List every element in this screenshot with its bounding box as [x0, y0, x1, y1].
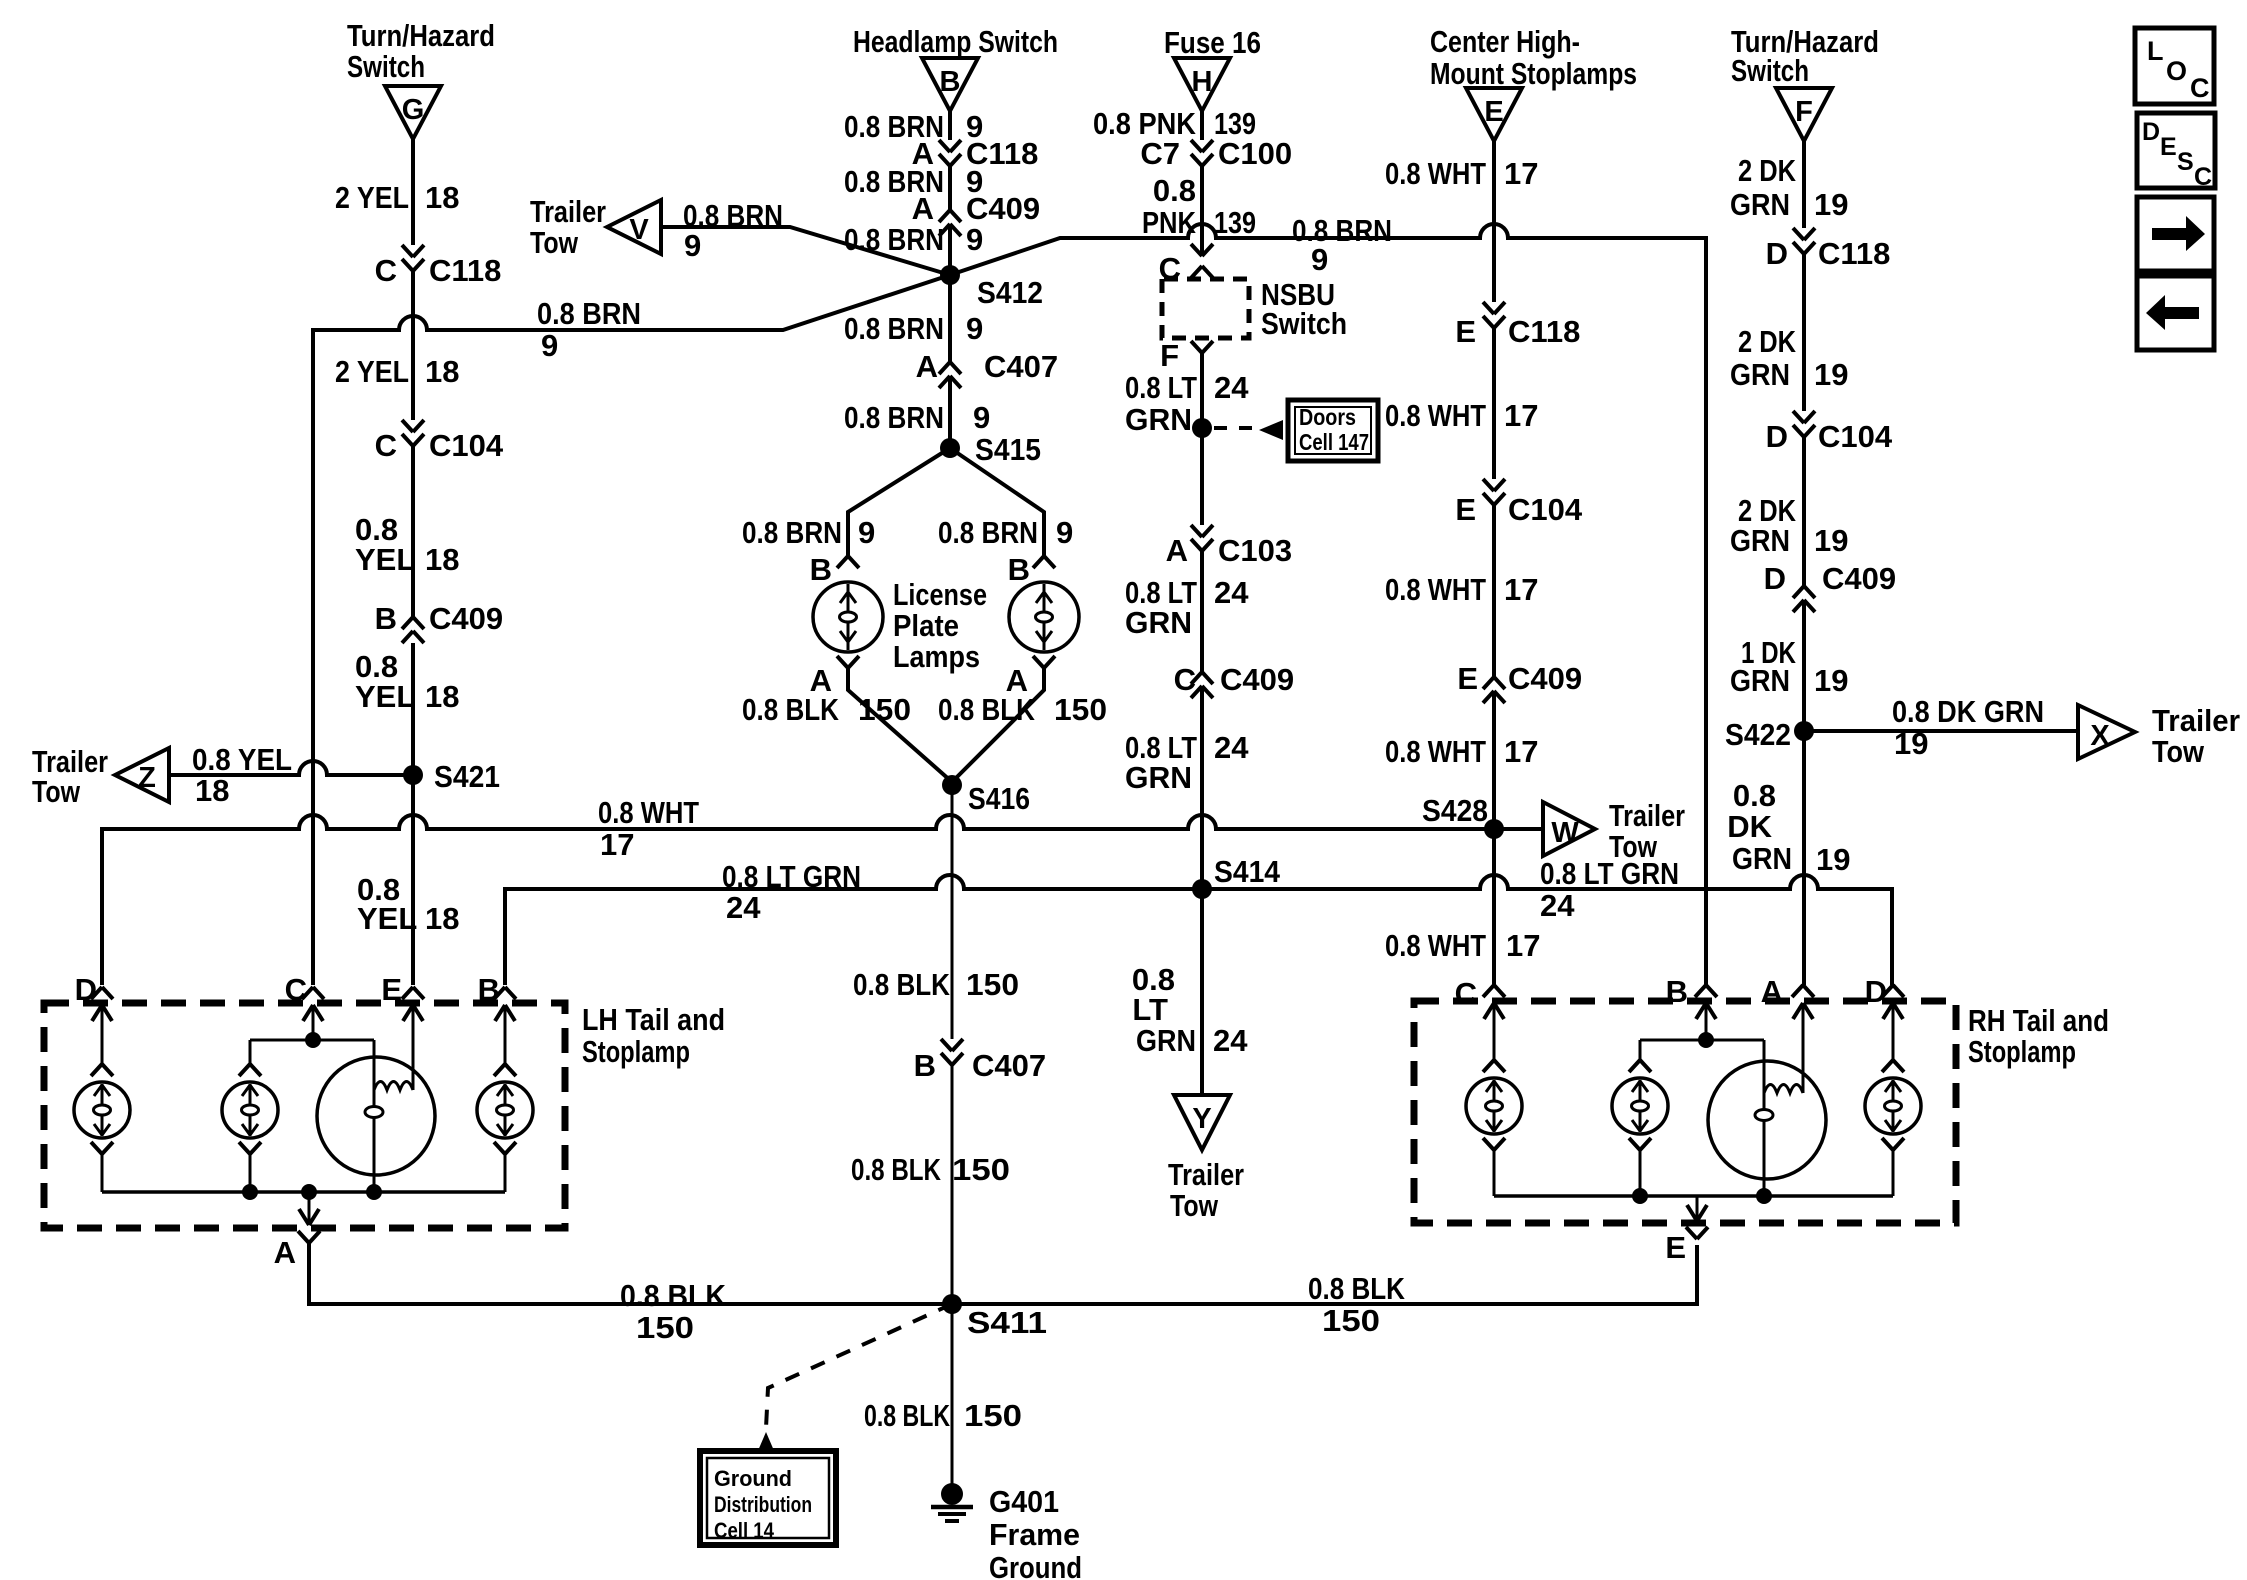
svg-text:0.8 BLK: 0.8 BLK	[938, 692, 1036, 727]
svg-text:19: 19	[1814, 187, 1848, 222]
svg-text:Tow: Tow	[2152, 734, 2205, 769]
wire 2 YEL 18 from G triangle to C118	[411, 139, 415, 245]
svg-text:24: 24	[1540, 888, 1575, 923]
svg-text:17: 17	[1504, 572, 1538, 607]
svg-text:C407: C407	[984, 349, 1058, 384]
svg-text:Trailer: Trailer	[530, 194, 606, 229]
splice S415	[940, 438, 960, 458]
svg-text:9: 9	[966, 222, 983, 257]
svg-text:F: F	[1795, 96, 1813, 128]
svg-text:150: 150	[636, 1310, 694, 1345]
wire inside RH: pin B to junction	[1705, 1003, 1708, 1040]
svg-text:GRN: GRN	[1125, 605, 1192, 640]
connector ref triangle X (Trailer Tow)	[2078, 705, 2135, 759]
svg-text:24: 24	[1213, 1023, 1248, 1058]
svg-text:Trailer: Trailer	[1609, 798, 1685, 833]
svg-text:0.8 WHT: 0.8 WHT	[1385, 398, 1486, 433]
svg-text:18: 18	[425, 354, 459, 389]
svg-text:B: B	[375, 601, 397, 636]
svg-text:B: B	[1008, 552, 1030, 587]
svg-text:DK: DK	[1727, 809, 1772, 844]
svg-text:17: 17	[1504, 398, 1538, 433]
svg-text:A: A	[916, 349, 938, 384]
wire 0.8 LT GRN 24 from LH pin B to RH pin D	[505, 875, 1892, 985]
svg-text:Z: Z	[138, 762, 156, 794]
svg-text:2 YEL: 2 YEL	[335, 354, 409, 389]
wire 0.8 BLK 150 left lamp to S416	[848, 668, 952, 782]
svg-text:0.8 WHT: 0.8 WHT	[1385, 156, 1486, 191]
connector C118 pin C (G column)	[402, 245, 424, 257]
wire inside RH: left leg to inner lamp	[1639, 1040, 1642, 1060]
svg-text:150: 150	[1322, 1303, 1380, 1338]
svg-text:9: 9	[973, 400, 990, 435]
svg-text:18: 18	[425, 180, 459, 215]
svg-text:Ground: Ground	[989, 1550, 1082, 1580]
svg-text:H: H	[1192, 66, 1213, 98]
pin chevrons RH inner tail lamp	[1629, 1060, 1651, 1072]
svg-text:S415: S415	[975, 432, 1041, 467]
svg-text:Plate: Plate	[893, 608, 959, 643]
svg-text:0.8 BRN: 0.8 BRN	[1292, 213, 1392, 248]
svg-text:18: 18	[425, 679, 459, 714]
connector C104 pin E (E column)	[1483, 479, 1505, 491]
junction RH bus at stoplamp	[1756, 1188, 1772, 1204]
svg-text:0.8 LT GRN: 0.8 LT GRN	[1540, 856, 1679, 891]
svg-text:D: D	[1865, 974, 1887, 1009]
svg-text:18: 18	[195, 773, 229, 808]
svg-text:GRN: GRN	[1136, 1023, 1196, 1058]
svg-text:B: B	[940, 66, 961, 98]
svg-text:C409: C409	[1822, 561, 1896, 596]
svg-text:Mount Stoplamps: Mount Stoplamps	[1430, 56, 1637, 91]
svg-text:Headlamp Switch: Headlamp Switch	[853, 24, 1058, 59]
svg-text:9: 9	[684, 228, 701, 263]
svg-text:G: G	[402, 94, 425, 126]
svg-text:Distribution: Distribution	[714, 1492, 812, 1517]
svg-text:24: 24	[1214, 370, 1249, 405]
junction LH bus at pin A drop	[301, 1184, 317, 1200]
svg-text:24: 24	[1214, 575, 1249, 610]
svg-text:17: 17	[1506, 928, 1540, 963]
svg-text:B: B	[914, 1048, 936, 1083]
svg-text:A: A	[1761, 974, 1783, 1009]
svg-text:Cell 147: Cell 147	[1299, 429, 1369, 455]
svg-text:Center High-: Center High-	[1430, 24, 1580, 59]
svg-text:B: B	[810, 552, 832, 587]
svg-text:GRN: GRN	[1730, 187, 1790, 222]
connector ref triangle F (Turn/Hazard Switch)	[1776, 88, 1832, 141]
svg-text:0.8: 0.8	[1153, 173, 1196, 208]
junction inside RH at pin B	[1698, 1032, 1714, 1048]
svg-text:S422: S422	[1725, 717, 1791, 752]
wire 0.8 BRN 9 from S415 to right license lamp	[950, 448, 1044, 556]
svg-text:0.8 WHT: 0.8 WHT	[1385, 928, 1486, 963]
svg-text:Stoplamp: Stoplamp	[1968, 1034, 2076, 1069]
svg-text:RH Tail and: RH Tail and	[1968, 1003, 2109, 1038]
svg-text:0.8 BRN: 0.8 BRN	[844, 400, 944, 435]
svg-text:17: 17	[1504, 156, 1538, 191]
legend box LOC	[2135, 28, 2214, 104]
svg-text:Tow: Tow	[530, 225, 579, 260]
pin chevrons RH lamp D	[1882, 1060, 1904, 1072]
wire 0.8 BRN 9 from S412 to RH tail pin B	[950, 224, 1706, 985]
svg-text:0.8 BRN: 0.8 BRN	[742, 515, 842, 550]
svg-text:C118: C118	[1508, 314, 1580, 349]
LH tail lamp at pin B	[477, 1082, 533, 1138]
junction LH bus at stoplamp	[366, 1184, 382, 1200]
LH stoplamp coil	[374, 1082, 413, 1091]
wire 0.8 LT GRN 24 from C409 to S414	[1200, 686, 1204, 889]
svg-text:C: C	[375, 253, 397, 288]
pin C of NSBU switch	[1191, 244, 1213, 256]
svg-text:150: 150	[858, 692, 911, 727]
svg-text:L: L	[2147, 36, 2164, 66]
wire inside LH: left leg to inner lamp	[249, 1040, 252, 1064]
connector C407 pin A (B column)	[939, 362, 961, 374]
splice S428	[1484, 819, 1504, 839]
svg-text:C100: C100	[1218, 136, 1292, 171]
wire inside LH: pin C to junction	[312, 1005, 315, 1040]
license plate lamp right	[1009, 582, 1079, 652]
wire inside LH: stoplamp filament leg	[373, 1040, 376, 1192]
svg-text:C409: C409	[429, 601, 503, 636]
svg-text:9: 9	[1056, 515, 1073, 550]
dashed leader from S411 to Ground Distribution box	[766, 1304, 952, 1428]
connector C118 pin D (F column)	[1793, 228, 1815, 240]
svg-text:S414: S414	[1214, 854, 1281, 889]
wire 0.8 YEL 18 from C104 to C409	[411, 446, 415, 617]
svg-text:C409: C409	[1220, 662, 1294, 697]
wire 2 DK GRN 19 from C104 to C409	[1802, 437, 1806, 586]
wire inside RH: lamp C to bus	[1493, 1150, 1496, 1196]
svg-text:C: C	[2194, 163, 2212, 191]
wire 2 DK GRN 19 from F to C118	[1802, 141, 1806, 228]
wire 0.8 LT GRN 24 from NSBU F to Doors splice	[1200, 353, 1204, 525]
connector C407 pin B (BLK column)	[941, 1039, 963, 1051]
svg-text:C118: C118	[429, 253, 501, 288]
svg-text:S428: S428	[1422, 793, 1488, 828]
wire 0.8 YEL 18 from S421 to LH tail pin E	[411, 775, 415, 985]
svg-text:YEL: YEL	[355, 679, 415, 714]
wire 0.8 WHT 17 from S428 to RH tail pin C	[1492, 829, 1496, 985]
legend box forward arrow	[2137, 197, 2214, 271]
license plate lamp left	[813, 582, 883, 652]
wire 0.8 PNK 139 from H to C100	[1200, 111, 1204, 140]
svg-text:0.8 LT GRN: 0.8 LT GRN	[722, 859, 861, 894]
wire inside LH: bottom bus	[102, 1190, 505, 1194]
wire 0.8 DK GRN 19 from S422 to RH tail pin A	[1802, 731, 1806, 985]
svg-text:E: E	[381, 972, 402, 1007]
pin D of LH tail lamp	[91, 987, 113, 999]
connector C118 pin A (B column)	[939, 140, 961, 152]
svg-text:C104: C104	[1818, 419, 1893, 454]
svg-text:E: E	[1484, 96, 1503, 128]
svg-text:S416: S416	[968, 781, 1030, 816]
wire 0.8 YEL 18 from Z to S421	[169, 761, 413, 775]
LH stoplamp (dual filament) circle	[317, 1057, 435, 1175]
svg-text:C118: C118	[1818, 236, 1890, 271]
svg-text:9: 9	[858, 515, 875, 550]
svg-text:0.8 LT: 0.8 LT	[1125, 370, 1197, 405]
wire 0.8 BLK 150 right lamp to S416	[952, 668, 1044, 782]
wire inside RH: inner lamp to bus	[1639, 1150, 1642, 1196]
pin chevrons LH inner tail lamp	[239, 1064, 261, 1076]
LH Tail and Stoplamp dashed box	[44, 1003, 565, 1228]
splice S416	[942, 775, 962, 795]
svg-text:2 DK: 2 DK	[1738, 324, 1796, 359]
junction inside LH at pin C	[305, 1032, 321, 1048]
svg-text:C: C	[1455, 976, 1477, 1011]
svg-text:0.8 WHT: 0.8 WHT	[1385, 734, 1486, 769]
wire 0.8 BRN 9 from S412 to C407	[948, 275, 952, 362]
svg-text:Trailer: Trailer	[2152, 703, 2240, 738]
junction LH bus at inner lamp	[242, 1184, 258, 1200]
svg-text:Frame: Frame	[989, 1517, 1080, 1552]
connector ref triangle H (Fuse 16)	[1174, 58, 1230, 111]
wire inside RH: junction horizontal	[1640, 1039, 1764, 1042]
svg-text:C: C	[2190, 73, 2210, 103]
svg-text:150: 150	[952, 1152, 1010, 1187]
RH stoplamp (dual filament) circle	[1708, 1061, 1826, 1179]
wire 0.8 WHT 17 from S428 to W	[1494, 827, 1543, 831]
svg-text:C: C	[1174, 662, 1196, 697]
svg-text:24: 24	[1214, 730, 1249, 765]
svg-text:0.8 BRN: 0.8 BRN	[844, 311, 944, 346]
RH inner tail lamp	[1612, 1078, 1668, 1134]
wire inside LH: pin E to stoplamp coil	[412, 1005, 415, 1090]
wire inside RH: pin C to lamp	[1493, 1003, 1496, 1060]
wire 0.8 WHT 17 from C409 to S428	[1492, 691, 1496, 829]
svg-text:A: A	[274, 1235, 296, 1270]
svg-text:0.8 YEL: 0.8 YEL	[192, 742, 292, 777]
svg-text:19: 19	[1814, 523, 1848, 558]
svg-text:YEL: YEL	[357, 901, 417, 936]
svg-text:18: 18	[425, 901, 459, 936]
pin D of RH tail lamp	[1882, 985, 1904, 997]
svg-text:C7: C7	[1140, 136, 1180, 171]
svg-text:Switch: Switch	[1261, 306, 1347, 341]
svg-text:9: 9	[966, 311, 983, 346]
splice to Doors Cell 147 reference	[1192, 418, 1212, 438]
wire 2 DK GRN 19 from C118 to C104	[1802, 254, 1806, 411]
pin A of RH tail lamp	[1792, 985, 1814, 997]
svg-text:Switch: Switch	[1731, 53, 1809, 88]
ground terminal dot G401	[941, 1483, 963, 1505]
svg-text:Y: Y	[1192, 1103, 1211, 1135]
svg-text:17: 17	[1504, 734, 1538, 769]
svg-text:0.8 WHT: 0.8 WHT	[1385, 572, 1486, 607]
wire 0.8 BRN 9 from B to C118	[948, 111, 952, 140]
wire 0.8 LT GRN 24 from C103 to C409	[1200, 551, 1204, 672]
RH stoplamp filament ellipse	[1755, 1110, 1773, 1121]
wire 0.8 BLK 150 from C407 to S411	[951, 1065, 954, 1304]
svg-text:0.8 BRN: 0.8 BRN	[938, 515, 1038, 550]
wire inside RH: pin A to stoplamp coil	[1802, 1003, 1805, 1093]
svg-text:Stoplamp: Stoplamp	[582, 1034, 690, 1069]
RH Tail and Stoplamp dashed box	[1414, 1001, 1956, 1223]
svg-text:0.8 BLK: 0.8 BLK	[864, 1398, 950, 1433]
pin F of NSBU switch	[1191, 341, 1213, 353]
pin chevrons LH lamp B	[494, 1064, 516, 1076]
svg-text:C: C	[375, 428, 397, 463]
svg-text:19: 19	[1814, 663, 1848, 698]
svg-text:Turn/Hazard: Turn/Hazard	[347, 18, 495, 53]
pin E of RH tail lamp	[1687, 1205, 1707, 1221]
pin chevrons right license lamp	[1033, 556, 1055, 568]
svg-text:19: 19	[1814, 357, 1848, 392]
splice S422	[1794, 721, 1814, 741]
svg-text:GRN: GRN	[1125, 760, 1192, 795]
connector C409 pin E (E column)	[1483, 677, 1505, 689]
wire 0.8 WHT 17 from C104 to C409	[1492, 505, 1496, 677]
svg-text:S421: S421	[434, 759, 500, 794]
svg-text:E: E	[2160, 133, 2177, 161]
svg-text:Tow: Tow	[32, 774, 81, 809]
svg-text:Trailer: Trailer	[1168, 1157, 1244, 1192]
svg-text:Ground: Ground	[714, 1466, 792, 1491]
wire 0.8 YEL 18 from C409 to S421	[411, 643, 415, 775]
wire inside RH: stoplamp filament leg	[1763, 1040, 1766, 1196]
wire 0.8 BLK 150 from S411 to G401	[951, 1304, 954, 1488]
svg-text:0.8 BLK: 0.8 BLK	[1308, 1271, 1406, 1306]
svg-text:D: D	[1764, 561, 1786, 596]
svg-text:0.8 DK GRN: 0.8 DK GRN	[1892, 694, 2044, 729]
svg-text:GRN: GRN	[1732, 841, 1792, 876]
LH tail lamp (outer)	[74, 1082, 130, 1138]
wire 0.8 DK GRN 19 from S422 to X	[1804, 729, 2078, 733]
splice S411	[942, 1294, 962, 1314]
wire 0.8 BLK 150 from LH pin A to S411 to RH pin E	[309, 1241, 1697, 1304]
svg-text:18: 18	[425, 542, 459, 577]
svg-text:E: E	[1665, 1230, 1686, 1265]
svg-text:Fuse 16: Fuse 16	[1164, 25, 1261, 60]
LH stoplamp filament ellipse	[365, 1107, 383, 1118]
Ground Distribution Cell 14 reference box	[700, 1451, 836, 1545]
wire inside LH: bus to pin A	[308, 1192, 311, 1225]
svg-text:E: E	[1455, 314, 1476, 349]
connector C104 pin C (G column)	[402, 420, 424, 432]
RH tail lamp at pin D	[1865, 1078, 1921, 1134]
pin chevrons LH tail lamp D	[91, 1064, 113, 1076]
svg-text:Switch: Switch	[347, 49, 425, 84]
wire 0.8 WHT 17 from LH pin D to S428	[102, 815, 1494, 985]
legend box DESC	[2137, 113, 2215, 188]
svg-text:0.8 BRN: 0.8 BRN	[844, 222, 944, 257]
connector C103 pin A (H column)	[1191, 525, 1213, 537]
svg-text:2 YEL: 2 YEL	[335, 180, 409, 215]
svg-text:License: License	[893, 577, 987, 612]
pin B of LH tail lamp	[494, 987, 516, 999]
wire inside RH: lamp D to bus	[1892, 1150, 1895, 1196]
svg-text:17: 17	[600, 827, 634, 862]
connector ref triangle G (Turn/Hazard Switch)	[385, 86, 441, 139]
svg-text:GRN: GRN	[1730, 663, 1790, 698]
svg-text:0.8 BLK: 0.8 BLK	[851, 1152, 941, 1187]
svg-text:C104: C104	[1508, 492, 1583, 527]
svg-text:Cell 14: Cell 14	[714, 1518, 775, 1543]
splice S414	[1192, 879, 1212, 899]
pin C of LH tail lamp	[302, 987, 324, 999]
svg-text:G401: G401	[989, 1484, 1059, 1519]
connector ref triangle B (Headlamp Switch)	[922, 58, 978, 111]
svg-text:C104: C104	[429, 428, 504, 463]
wire 0.8 BRN 9 from S412 to LH tail pin C	[313, 275, 950, 985]
wire 0.8 BLK 150 from S416 to C407	[951, 785, 954, 1039]
wire 2 YEL 18 from C118 to C104	[411, 271, 415, 420]
splice S412	[940, 265, 960, 285]
svg-text:E: E	[1455, 492, 1476, 527]
svg-text:C409: C409	[1508, 661, 1582, 696]
connector C409 pin D (F column)	[1793, 586, 1815, 598]
wire inside RH: bus to pin E	[1696, 1196, 1699, 1221]
pin E of LH tail lamp	[402, 987, 424, 999]
RH tail lamp at pin C	[1466, 1078, 1522, 1134]
svg-text:LT: LT	[1132, 992, 1168, 1027]
wire inside LH: inner lamp to bus	[249, 1154, 252, 1192]
svg-text:2 DK: 2 DK	[1738, 153, 1796, 188]
pin A of LH tail lamp	[299, 1209, 319, 1225]
svg-text:LH Tail and: LH Tail and	[582, 1002, 725, 1037]
svg-text:B: B	[1666, 974, 1688, 1009]
wire inside LH: pin D to tail lamp	[101, 1005, 104, 1064]
pin chevrons RH lamp C	[1483, 1060, 1505, 1072]
wire 0.8 BRN 9 from V to S412	[661, 227, 950, 275]
Doors Cell 147 reference box	[1288, 400, 1378, 461]
connector C100 pin C7 (H column)	[1191, 140, 1213, 152]
svg-text:150: 150	[1054, 692, 1107, 727]
connector C409 pin C (H column)	[1191, 672, 1213, 684]
dashed leader to Doors Cell 147	[1214, 426, 1256, 430]
connector ref triangle V (Trailer Tow)	[607, 200, 661, 254]
arrow to Doors Cell 147	[1259, 420, 1283, 440]
svg-text:GRN: GRN	[1125, 402, 1192, 437]
connector C118 pin E (E column)	[1483, 302, 1505, 314]
svg-text:19: 19	[1894, 726, 1928, 761]
svg-text:GRN: GRN	[1730, 357, 1790, 392]
svg-text:C103: C103	[1218, 533, 1292, 568]
svg-text:D: D	[75, 972, 97, 1007]
svg-text:9: 9	[541, 328, 558, 363]
svg-text:YEL: YEL	[355, 542, 415, 577]
svg-text:S411: S411	[967, 1305, 1047, 1340]
pin C of RH tail lamp	[1483, 985, 1505, 997]
legend box back arrow	[2137, 276, 2214, 350]
svg-text:19: 19	[1816, 842, 1850, 877]
svg-text:V: V	[629, 214, 649, 246]
svg-text:0.8 BLK: 0.8 BLK	[620, 1278, 727, 1313]
connector ref triangle Z (Trailer Tow)	[115, 748, 169, 802]
pin chevrons left license lamp	[837, 556, 859, 568]
wire inside LH: lamp D to bus	[101, 1154, 104, 1192]
svg-text:B: B	[478, 972, 500, 1007]
wire 0.8 BRN 9 from C118 to C409	[948, 166, 952, 210]
svg-text:A: A	[1166, 533, 1188, 568]
svg-text:F: F	[1160, 338, 1179, 373]
svg-text:150: 150	[966, 967, 1019, 1002]
svg-text:S: S	[2177, 148, 2194, 176]
svg-text:150: 150	[964, 1398, 1022, 1433]
pin B of RH tail lamp	[1695, 985, 1717, 997]
svg-text:X: X	[2090, 720, 2110, 752]
RH stoplamp coil	[1764, 1085, 1803, 1094]
wire inside RH: pin D to lamp	[1892, 1003, 1895, 1060]
junction RH bus at inner lamp	[1632, 1188, 1648, 1204]
wire inside LH: junction horizontal	[250, 1039, 374, 1042]
svg-text:W: W	[1551, 817, 1579, 849]
svg-text:D: D	[1766, 236, 1788, 271]
svg-text:E: E	[1457, 661, 1478, 696]
wire inside LH: pin B to lamp	[504, 1005, 507, 1064]
